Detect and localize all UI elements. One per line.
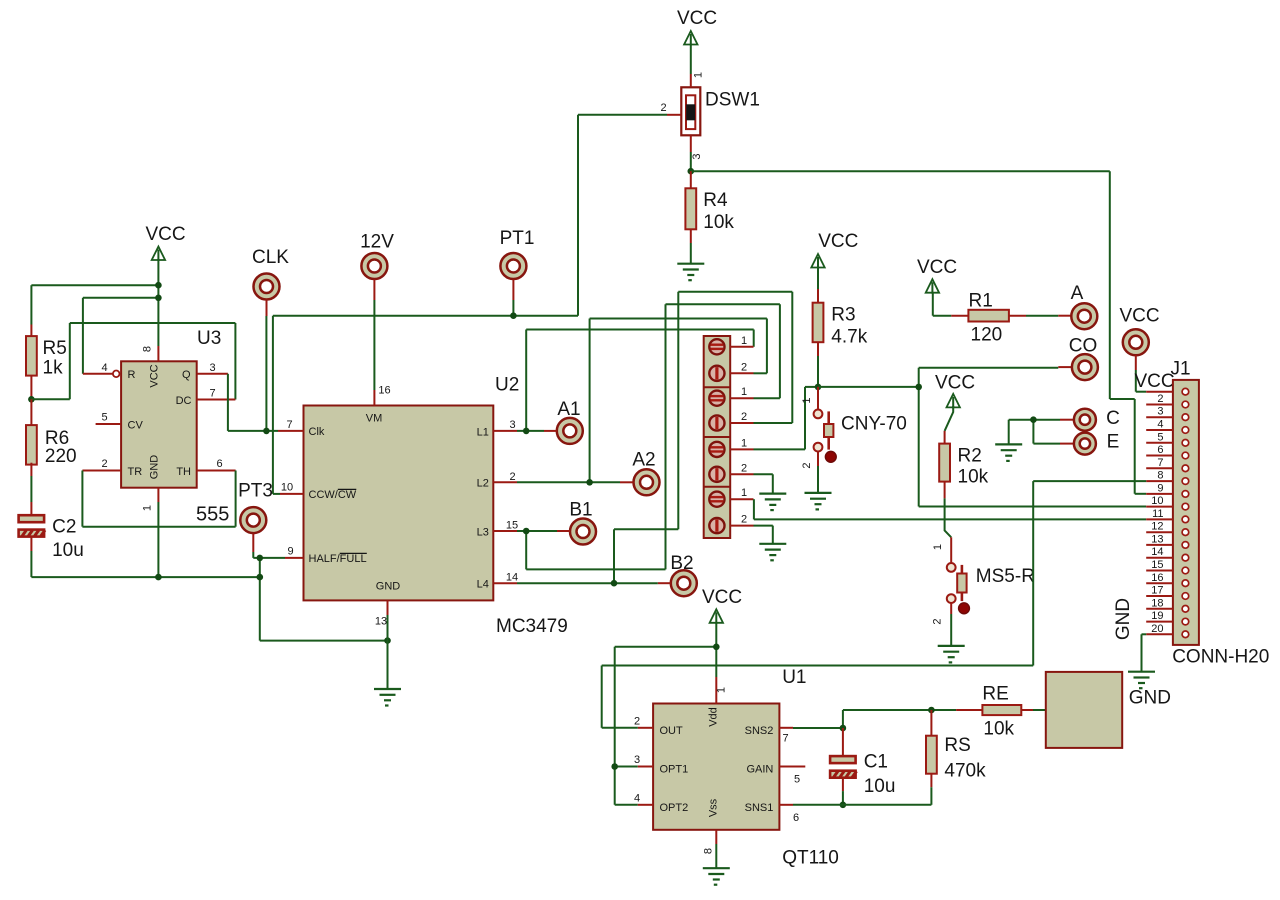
svg-text:CLK: CLK — [252, 247, 289, 268]
terminal CO — [1058, 366, 1072, 368]
svg-text:1: 1 — [741, 487, 747, 499]
U1 pin names — [660, 707, 774, 817]
junction RS-RE — [928, 707, 935, 714]
U1 pin 5 GAIN stub — [779, 766, 805, 768]
svg-text:R: R — [128, 369, 136, 381]
svg-text:GND: GND — [149, 455, 161, 480]
svg-text:10k: 10k — [958, 467, 989, 488]
svg-text:8: 8 — [142, 346, 154, 352]
svg-text:2: 2 — [741, 514, 747, 526]
svg-text:OUT: OUT — [660, 725, 684, 737]
svg-text:11: 11 — [1152, 508, 1163, 520]
svg-text:VCC: VCC — [1134, 371, 1174, 392]
svg-text:SNS2: SNS2 — [745, 725, 774, 737]
svg-text:VCC: VCC — [702, 587, 742, 608]
svg-text:TH: TH — [176, 466, 191, 478]
svg-text:5: 5 — [794, 774, 800, 786]
svg-text:7: 7 — [286, 419, 292, 431]
svg-text:16: 16 — [1151, 572, 1163, 584]
svg-text:VCC: VCC — [818, 231, 858, 252]
wire ground net to U2 GND pin 13 — [260, 640, 388, 642]
terminal C — [1060, 419, 1074, 421]
svg-text:220: 220 — [45, 446, 77, 467]
svg-text:1: 1 — [716, 687, 728, 693]
svg-text:15: 15 — [1151, 559, 1163, 571]
svg-text:18: 18 — [1151, 597, 1163, 609]
wire PT1 net to DSW1 pin2 and U2 CCW/CW — [512, 300, 514, 316]
connector terminal block 4x2 — [704, 336, 731, 538]
svg-text:E: E — [1107, 432, 1120, 453]
junction L4-B2 — [611, 580, 618, 587]
block screw terminal pin 1 — [709, 442, 724, 457]
svg-text:3: 3 — [509, 419, 515, 431]
wire block pin 2d to ground — [754, 525, 773, 527]
IC U1 QT110 body — [653, 704, 779, 830]
J1 pin 3 — [1146, 416, 1173, 418]
svg-text:U1: U1 — [782, 667, 806, 688]
svg-text:2: 2 — [1157, 393, 1163, 405]
svg-text:MS5-R: MS5-R — [976, 566, 1035, 587]
wire MS5-R to ground — [950, 614, 952, 646]
svg-text:CO: CO — [1069, 336, 1098, 357]
J1 pin 17 — [1146, 595, 1173, 597]
junction R5-R6-DC — [28, 396, 35, 403]
resistor RS — [930, 710, 932, 736]
wire U3 GND pin to ground net — [157, 502, 159, 577]
svg-text:R5: R5 — [43, 338, 67, 359]
U2 pin 15 L3 — [493, 530, 517, 532]
J1 pin 13 — [1146, 544, 1173, 546]
IC U3 555 timer body — [121, 361, 197, 487]
junction PT3-HALF/FULL — [257, 555, 264, 562]
DSW1 pin 1 — [690, 45, 692, 75]
U2 pin 16 VM — [373, 390, 375, 406]
ground below U2 — [374, 689, 401, 706]
svg-text:10: 10 — [281, 482, 293, 494]
U2 pin 14 L4 — [493, 582, 517, 584]
wire R4 to ground — [690, 243, 692, 264]
block screw terminal pin 2 — [709, 518, 724, 533]
terminal CLK — [254, 274, 280, 300]
svg-text:1k: 1k — [43, 358, 64, 379]
wire R6 to C2 — [30, 476, 32, 502]
J1 pin 7 — [1146, 467, 1173, 469]
svg-text:3: 3 — [209, 362, 215, 374]
ground for C/E — [995, 444, 1022, 461]
wire R5/R6 junction to 555 DC pin 7 — [31, 398, 69, 400]
svg-text:10u: 10u — [52, 540, 84, 561]
junction U2 GND13 — [384, 637, 391, 644]
svg-text:MC3479: MC3479 — [496, 616, 568, 637]
terminal VCC top right — [1123, 329, 1149, 355]
block screw terminal pin 2 — [709, 366, 724, 381]
junction DSW1 pin3 — [688, 168, 695, 175]
wire VCC net to 555 pin 8 / R5 / R pin4 — [157, 259, 159, 346]
svg-text:OPT2: OPT2 — [660, 802, 689, 814]
J1 pin 18 — [1146, 608, 1173, 610]
svg-text:12V: 12V — [360, 232, 394, 253]
svg-text:Vss: Vss — [707, 798, 719, 817]
J1 pin 2 — [1146, 404, 1173, 406]
U1 pin 7 SNS2 — [779, 727, 793, 729]
power VCC symbol above U1 — [710, 609, 723, 624]
power VCC symbol near R1 — [926, 279, 939, 294]
J1 pin 20 — [1146, 633, 1173, 635]
ground block 2c — [759, 494, 786, 511]
svg-text:1: 1 — [741, 437, 747, 449]
terminal E — [1060, 443, 1074, 445]
terminal 12V — [361, 253, 387, 279]
switch DSW1 — [681, 87, 700, 135]
svg-text:1: 1 — [693, 72, 705, 78]
svg-text:C2: C2 — [52, 517, 76, 538]
wire U3 TR-TH loop — [81, 471, 83, 527]
wire DSW1 pin3 to J1 pin 9 — [691, 170, 1110, 172]
svg-text:CCW/CW: CCW/CW — [309, 489, 357, 501]
svg-text:GND: GND — [1129, 688, 1171, 709]
U1 pin 2 OUT — [638, 727, 653, 729]
switch MS5-R — [950, 537, 952, 562]
J1 pin 6 — [1146, 455, 1173, 457]
svg-text:2: 2 — [741, 411, 747, 423]
wire L1 to A1 and block pin 1a — [517, 430, 544, 432]
U3 pin 4 R with bubble — [83, 373, 113, 375]
svg-text:U2: U2 — [495, 375, 519, 396]
svg-text:2: 2 — [741, 462, 747, 474]
svg-text:C1: C1 — [864, 752, 888, 773]
J1 pin 9 — [1146, 493, 1173, 495]
junction VCC-R5 — [155, 282, 162, 289]
connector J1 CONN-H20 body — [1173, 380, 1199, 645]
U2 pin 7 Clk — [278, 430, 304, 432]
wire U1 Vss to ground — [715, 844, 717, 868]
U1 pin 1 Vdd — [715, 677, 717, 704]
ground below J1 — [1128, 672, 1155, 689]
resistor R1 — [932, 293, 934, 316]
svg-text:470k: 470k — [944, 761, 986, 782]
svg-text:L2: L2 — [477, 478, 489, 490]
svg-text:6: 6 — [216, 458, 222, 470]
DSW1 pin 2 — [667, 114, 681, 116]
wire RS to SNS1 net — [930, 787, 932, 805]
svg-text:12: 12 — [1151, 521, 1163, 533]
ground below MS5-R — [938, 646, 965, 663]
power VCC symbol above DSW1 — [684, 31, 697, 46]
U3 pin 2 TR — [82, 470, 121, 472]
U1 pin 3 OPT1 — [638, 766, 653, 768]
svg-text:4.7k: 4.7k — [831, 327, 867, 348]
U2 pin 3 L1 — [493, 430, 517, 432]
svg-text:13: 13 — [1151, 533, 1163, 545]
resistor RE — [956, 709, 982, 711]
svg-text:4: 4 — [634, 793, 640, 805]
svg-text:2: 2 — [741, 361, 747, 373]
U3 pin 3 Q — [197, 373, 228, 375]
wire block pin 1c to R3 junction — [754, 448, 806, 450]
svg-text:PT1: PT1 — [500, 228, 535, 249]
U2 pin 13 GND — [387, 600, 389, 615]
junction Clk — [263, 428, 270, 435]
svg-text:OPT1: OPT1 — [660, 763, 689, 775]
power VCC symbol above R2 — [947, 394, 960, 409]
svg-text:Clk: Clk — [309, 426, 325, 438]
svg-text:2: 2 — [634, 716, 640, 728]
wire U2 GND13 to ground — [387, 615, 389, 689]
svg-text:1: 1 — [932, 544, 944, 550]
svg-text:15: 15 — [506, 520, 518, 532]
svg-text:3: 3 — [1157, 406, 1163, 418]
svg-text:4: 4 — [101, 362, 107, 374]
svg-text:7: 7 — [1157, 457, 1163, 469]
junction SNS2-C1 — [840, 725, 847, 732]
junction OPT1-OPT2 — [611, 763, 618, 770]
svg-text:R2: R2 — [958, 446, 982, 467]
svg-text:C: C — [1106, 408, 1120, 429]
svg-text:RS: RS — [944, 735, 970, 756]
svg-text:VCC: VCC — [145, 224, 185, 245]
block screw terminal pin 1 — [709, 492, 724, 507]
terminal B1 — [570, 519, 596, 545]
wire J1 pin 20 to ground — [1142, 633, 1147, 635]
svg-text:7: 7 — [782, 733, 788, 745]
touch pad plate — [1046, 672, 1122, 748]
svg-text:14: 14 — [506, 572, 518, 584]
svg-text:R1: R1 — [969, 291, 993, 312]
wire block pin 2c to ground — [754, 473, 773, 475]
svg-text:B2: B2 — [670, 553, 693, 574]
resistor R4 — [690, 171, 692, 188]
svg-text:GND: GND — [376, 581, 401, 593]
svg-text:CONN-H20: CONN-H20 — [1172, 647, 1269, 668]
wire RE to touch pad — [1033, 709, 1046, 711]
svg-text:QT110: QT110 — [782, 848, 839, 869]
wire PT3 to HALF/FULL and ground net — [252, 552, 254, 558]
junction Vdd — [713, 644, 720, 651]
svg-text:8: 8 — [1157, 470, 1163, 482]
svg-text:2: 2 — [101, 458, 107, 470]
svg-text:A2: A2 — [632, 450, 655, 471]
svg-text:CV: CV — [128, 419, 144, 431]
svg-text:PT3: PT3 — [238, 481, 273, 502]
U2 pin names — [309, 413, 489, 593]
power VCC symbol above R3 — [811, 254, 824, 269]
svg-text:DSW1: DSW1 — [705, 90, 760, 111]
block screw terminal pin 2 — [709, 467, 724, 482]
svg-text:17: 17 — [1151, 585, 1163, 597]
svg-text:B1: B1 — [569, 500, 592, 521]
wire R3 to CNY-70 junction — [817, 356, 819, 387]
resistor R2 — [945, 406, 954, 431]
svg-text:10k: 10k — [703, 212, 734, 233]
U3 pin 8 VCC — [157, 346, 159, 361]
capacitor C2 — [30, 502, 32, 515]
svg-text:7: 7 — [209, 387, 215, 399]
svg-text:TR: TR — [128, 466, 143, 478]
svg-text:U3: U3 — [197, 328, 221, 349]
svg-text:1: 1 — [741, 386, 747, 398]
svg-text:5: 5 — [101, 412, 107, 424]
J1 pin 11 — [1146, 518, 1173, 520]
svg-text:6: 6 — [793, 812, 799, 824]
wire L2 to A2 and block pin 2a — [517, 481, 620, 483]
block screw terminal pin 1 — [709, 339, 724, 354]
resistor R5 — [26, 336, 37, 376]
wire U1 OUT to J1 pin 8 — [602, 727, 638, 729]
svg-text:VCC: VCC — [677, 8, 717, 29]
svg-text:19: 19 — [1151, 610, 1163, 622]
svg-text:L1: L1 — [477, 426, 489, 438]
svg-text:GND: GND — [1113, 598, 1134, 640]
svg-text:VCC: VCC — [149, 364, 161, 387]
block screw terminal pin 2 — [709, 415, 724, 430]
svg-text:3: 3 — [691, 153, 703, 159]
svg-text:9: 9 — [1157, 482, 1163, 494]
wire block pin 1d to J1 pin 11 — [753, 499, 755, 519]
U3 pin 7 DC — [197, 399, 236, 401]
svg-text:Vdd: Vdd — [707, 707, 719, 727]
svg-text:RE: RE — [982, 684, 1008, 705]
svg-text:L4: L4 — [477, 579, 489, 591]
junction L2-A2 — [586, 479, 593, 486]
U3 pin 5 CV stub — [96, 423, 122, 425]
J1 pin 1 — [1146, 391, 1173, 393]
junction C-E — [1030, 416, 1037, 423]
J1 pin 15 — [1146, 570, 1173, 572]
J1 pin 10 — [1146, 506, 1173, 508]
capacitor C1 — [842, 728, 844, 756]
svg-text:A1: A1 — [557, 399, 580, 420]
U1 pin 6 SNS1 — [779, 804, 793, 806]
terminal B2 — [671, 570, 697, 596]
U3 pin names — [128, 364, 192, 479]
svg-text:10: 10 — [1151, 495, 1163, 507]
wire C1 to SNS1 net — [842, 791, 844, 805]
svg-text:R3: R3 — [831, 305, 855, 326]
junction L3-B1 — [523, 528, 530, 535]
svg-text:1: 1 — [801, 397, 813, 403]
ground block 2d — [759, 544, 786, 561]
terminal A — [1058, 315, 1071, 317]
terminal A1 — [557, 418, 583, 444]
U3 pin 1 GND — [157, 488, 159, 502]
J1 pin 4 — [1146, 429, 1173, 431]
svg-text:Q: Q — [182, 369, 191, 381]
terminal PT3 — [240, 507, 266, 533]
wire L3 to B1 and block pin 1b — [517, 530, 557, 532]
wire R3 junction to CO and J1 pin 10 — [818, 386, 919, 388]
svg-text:J1: J1 — [1170, 359, 1190, 380]
svg-text:CNY-70: CNY-70 — [841, 414, 907, 435]
svg-text:SNS1: SNS1 — [745, 802, 774, 814]
U1 pin 4 OPT2 — [638, 804, 653, 806]
resistor R6 — [26, 425, 37, 465]
svg-text:L3: L3 — [477, 526, 489, 538]
U3 pin 6 TH — [197, 470, 236, 472]
J1 pin 5 — [1146, 442, 1173, 444]
junction L1-A1 — [523, 428, 530, 435]
wire R2 to MS5-R — [945, 498, 952, 537]
IC U2 MC3479 body — [304, 406, 494, 601]
svg-text:2: 2 — [509, 471, 515, 483]
wire 12V to U2 VM — [373, 300, 375, 390]
J1 pin 14 — [1146, 557, 1173, 559]
svg-text:120: 120 — [971, 325, 1003, 346]
svg-text:8: 8 — [703, 848, 715, 854]
junction CO riser — [915, 384, 922, 391]
svg-text:20: 20 — [1151, 623, 1163, 635]
J1 pin 19 — [1146, 621, 1173, 623]
svg-text:VCC: VCC — [917, 257, 957, 278]
svg-text:2: 2 — [932, 618, 944, 624]
U2 pin 9 HALF/FULL — [285, 557, 304, 559]
svg-text:VCC: VCC — [1119, 306, 1159, 327]
U2 pin 10 CCW/CW — [280, 493, 304, 495]
wire VCC to U1 Vdd and OPT straps — [715, 622, 717, 677]
ground below R4 — [677, 264, 704, 281]
svg-text:5: 5 — [1157, 431, 1163, 443]
U2 pin 2 L2 — [493, 481, 517, 483]
ground below CNY-70 — [805, 493, 832, 510]
svg-text:4: 4 — [1157, 419, 1163, 431]
svg-text:9: 9 — [287, 546, 293, 558]
junction R3-CNY70 — [815, 384, 822, 391]
block screw terminal pin 1 — [709, 391, 724, 406]
J1 pin 12 — [1146, 531, 1173, 533]
wire L4 to B2 and block pin 2b — [517, 582, 658, 584]
svg-text:1: 1 — [741, 335, 747, 347]
svg-text:10u: 10u — [864, 776, 896, 797]
svg-text:3: 3 — [634, 754, 640, 766]
terminal PT1 — [500, 253, 526, 279]
svg-text:16: 16 — [378, 385, 390, 397]
svg-text:R4: R4 — [703, 190, 728, 211]
power VCC symbol (555 area) — [152, 247, 165, 262]
junction VCC-R4pin — [155, 295, 162, 302]
svg-text:10k: 10k — [983, 719, 1014, 740]
svg-text:13: 13 — [375, 616, 387, 628]
terminal A2 — [634, 469, 660, 495]
wire VCC terminal to J1 pin 1 — [1135, 370, 1137, 392]
svg-text:1: 1 — [142, 505, 154, 511]
svg-text:6: 6 — [1157, 444, 1163, 456]
wire C2 to 555 ground net — [30, 551, 32, 577]
svg-text:14: 14 — [1151, 546, 1163, 558]
svg-text:555: 555 — [196, 504, 229, 526]
wire U3 Q to U2 Clk — [227, 374, 229, 431]
ground below U1 — [703, 868, 730, 885]
svg-text:A: A — [1071, 283, 1084, 304]
wire C and E to ground — [1033, 419, 1060, 421]
svg-text:GAIN: GAIN — [746, 763, 773, 775]
resistor R3 — [817, 267, 819, 290]
svg-text:2: 2 — [661, 102, 667, 114]
J1 pin 16 — [1146, 582, 1173, 584]
svg-text:DC: DC — [176, 395, 192, 407]
wire U1 SNS2 to C1 RS RE — [793, 727, 843, 729]
junction PT1 — [510, 312, 517, 319]
DSW1 pin 3 — [690, 135, 692, 152]
J1 pin 8 — [1146, 480, 1173, 482]
svg-text:VM: VM — [366, 413, 383, 425]
wire R1 to terminal A — [1026, 315, 1058, 317]
junction 555 gnd — [155, 574, 162, 581]
junction ground net riser — [257, 574, 264, 581]
switch CNY-70 — [817, 387, 819, 410]
svg-text:HALF/FULL: HALF/FULL — [309, 553, 367, 565]
wire CLK terminal to U2 Clk junction — [265, 316, 267, 431]
svg-text:2: 2 — [801, 462, 813, 468]
U1 pin 8 Vss — [715, 830, 717, 844]
